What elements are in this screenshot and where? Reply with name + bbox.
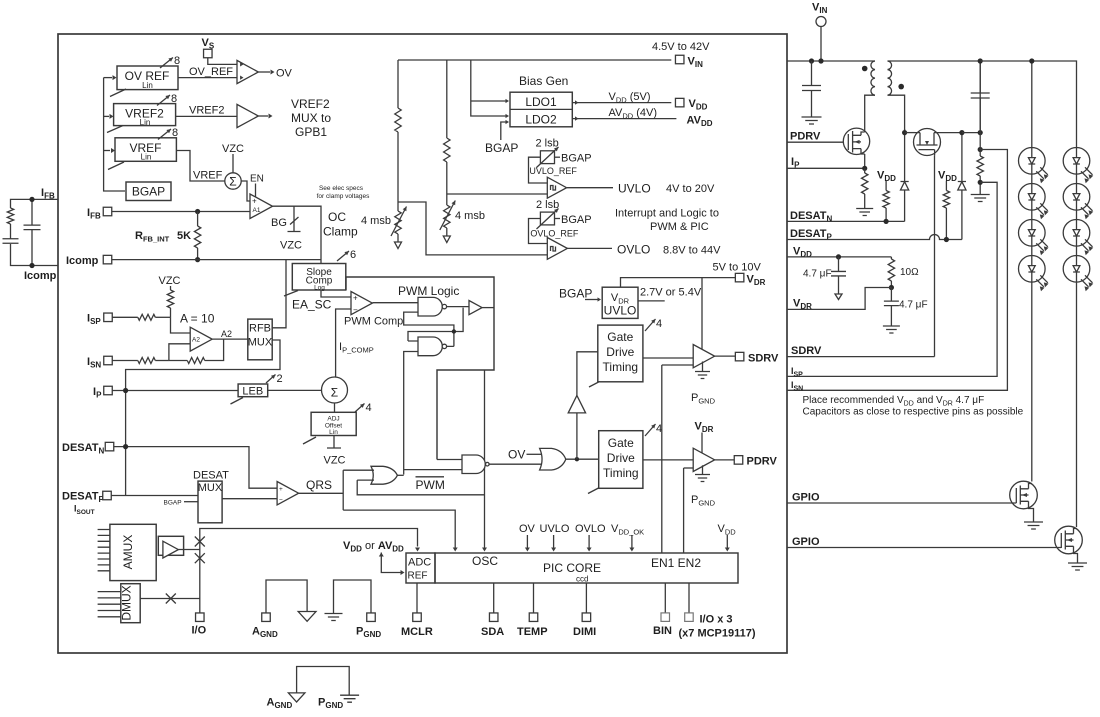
svg-text:8.8V to 44V: 8.8V to 44V xyxy=(663,245,721,257)
svg-text:LDO2: LDO2 xyxy=(525,113,557,127)
ground VDR cap earth xyxy=(883,326,900,333)
svg-text:4.7 μF: 4.7 μF xyxy=(899,300,928,311)
svg-text:for clamp voltages: for clamp voltages xyxy=(317,193,370,200)
svg-text:6: 6 xyxy=(350,249,356,261)
svg-text:AMUX: AMUX xyxy=(121,535,135,570)
wire driver2 ground xyxy=(702,465,704,474)
resistor RFB_INT 5K xyxy=(197,212,199,260)
svg-text:8: 8 xyxy=(174,55,180,67)
or gate OR1 xyxy=(371,466,397,484)
buffer up-triangle xyxy=(568,396,585,413)
driver PDRV xyxy=(693,448,714,471)
svg-text:OVLO: OVLO xyxy=(617,243,650,257)
adj arrow 2 on LEB xyxy=(266,375,276,384)
wire arrow into VREF2 xyxy=(104,115,109,117)
svg-text:2.7V or 5.4V: 2.7V or 5.4V xyxy=(640,287,702,299)
wire OVLO out xyxy=(567,247,612,249)
svg-text:PWM Comp: PWM Comp xyxy=(344,316,403,328)
transformer secondary leads xyxy=(888,61,981,133)
svg-text:(x7 MCP19117): (x7 MCP19117) xyxy=(679,628,756,640)
svg-text:4: 4 xyxy=(656,318,662,330)
transformer T1 primary xyxy=(871,61,875,95)
wire VDR to VDR-UVLO xyxy=(621,278,736,288)
wire TEMP stub xyxy=(533,583,535,613)
wire LEB to summer2 xyxy=(268,389,322,391)
svg-text:Lin: Lin xyxy=(142,81,153,90)
svg-text:UVLO: UVLO xyxy=(604,304,637,318)
svg-text:+: + xyxy=(279,486,283,493)
transformer primary bottom lead xyxy=(865,95,875,132)
svg-text:Icomp: Icomp xyxy=(66,255,99,267)
svg-text:4V to 20V: 4V to 20V xyxy=(666,183,715,195)
pin VDR square xyxy=(735,273,744,282)
wire EN1 stub into driver1 xyxy=(662,364,693,366)
diode D1 xyxy=(901,129,909,221)
wire MUX out to comparator minus xyxy=(222,498,277,500)
pin PGND xyxy=(367,613,376,622)
adj arrow 8 on VREF2 xyxy=(157,95,170,106)
varres divider2 4msb xyxy=(444,205,450,228)
svg-text:PWM Logic: PWM Logic xyxy=(398,284,459,298)
wire BGAP arrow into VDR UVLO xyxy=(585,299,598,301)
svg-text:VDR: VDR xyxy=(747,274,766,288)
wire output cap gap xyxy=(979,61,981,133)
svg-text:BGAP: BGAP xyxy=(164,500,182,507)
svg-text:BGAP: BGAP xyxy=(485,141,518,155)
LED D4 column1 xyxy=(1019,184,1049,220)
svg-text:VDD or AVDD: VDD or AVDD xyxy=(343,540,404,554)
block VDR UVLO xyxy=(602,287,638,318)
svg-text:+: + xyxy=(353,294,358,303)
wire buffer to IO bus xyxy=(178,549,199,551)
svg-text:VREF2: VREF2 xyxy=(291,97,330,111)
wire divider1 vertical xyxy=(397,60,399,108)
pin VDD square xyxy=(675,98,684,107)
wire IFB to A1 xyxy=(112,211,250,213)
wire BGAP reference bus xyxy=(104,78,125,191)
wire output rail to LEDs xyxy=(980,61,1076,148)
block DMUX xyxy=(120,584,141,623)
svg-text:VDD_OK: VDD_OK xyxy=(611,523,644,537)
svg-text:BIN: BIN xyxy=(653,625,672,637)
adj arrow 8 on OV REF xyxy=(160,58,173,69)
svg-text:EN1 EN2: EN1 EN2 xyxy=(651,556,701,570)
svg-text:QRS: QRS xyxy=(306,478,332,492)
svg-text:Icomp: Icomp xyxy=(24,270,57,282)
wire IOx3 stub xyxy=(688,583,690,613)
ground Q1 sense earth xyxy=(856,209,873,216)
wire LED col2 interconnect xyxy=(1076,174,1078,527)
adj arrow 6 on slope comp xyxy=(337,251,349,261)
svg-text:4: 4 xyxy=(656,423,662,435)
wire BIN stub xyxy=(664,583,666,613)
arrows into PIC top: OV UVLO OVLO VDDOK VDD xyxy=(526,535,528,549)
wire summer to A1 xyxy=(241,181,250,201)
svg-text:SDRV: SDRV xyxy=(791,345,822,357)
wire A2 output xyxy=(212,338,248,340)
svg-text:EN: EN xyxy=(250,174,264,185)
wire Q1 source down xyxy=(864,154,866,168)
pin IO xyxy=(196,613,205,622)
wire IP external xyxy=(787,167,865,169)
block AMUX xyxy=(110,524,156,580)
analog-ground triangle symbol xyxy=(288,693,305,702)
adj tick GDT2 xyxy=(588,488,599,494)
wire VREF2 buffer out arrow xyxy=(258,115,268,117)
wire divider2 middle xyxy=(446,162,448,205)
pin VIN external circle xyxy=(816,17,826,27)
ground input cap earth xyxy=(802,117,822,124)
LED D5 column1 xyxy=(1019,220,1049,256)
wire DESATP to DESAT MUX xyxy=(111,495,198,497)
wire secondary node to NMOS xyxy=(905,132,915,134)
svg-text:DMUX: DMUX xyxy=(120,585,134,620)
wire A1 output to slope comp xyxy=(273,206,322,263)
wire OV output arrow xyxy=(258,71,270,73)
svg-text:IP: IP xyxy=(93,386,102,400)
svg-text:IP: IP xyxy=(791,156,800,170)
block BGAP xyxy=(126,182,171,201)
wire NMOS gate down to SDRV xyxy=(934,155,936,356)
junction dot output top xyxy=(978,130,983,135)
wire DMUX out xyxy=(140,598,200,600)
svg-text:Lin: Lin xyxy=(140,118,151,127)
LED D10 column2 xyxy=(1063,255,1093,291)
svg-text:OSC: OSC xyxy=(472,554,498,568)
wire MCLR stub xyxy=(416,583,418,613)
svg-text:ISN: ISN xyxy=(87,356,101,370)
junction dot rail-cap xyxy=(809,58,814,63)
svg-text:DIMI: DIMI xyxy=(573,626,596,638)
summer sigma S1 xyxy=(225,173,241,189)
pin MCLR xyxy=(413,613,422,622)
wire inverter out to box edge xyxy=(482,307,494,309)
junction dot bus-IP xyxy=(123,388,128,393)
svg-text:Timing: Timing xyxy=(603,360,639,374)
wire UVLO out xyxy=(567,187,613,189)
wire PDRV external to PMOS gate xyxy=(787,141,847,143)
svg-text:A2: A2 xyxy=(192,337,200,344)
svg-text:RFB_INT: RFB_INT xyxy=(135,230,170,244)
X mark lower xyxy=(195,553,205,563)
comparator OVLO xyxy=(547,238,567,260)
adj tick LEB bottom-left xyxy=(231,398,244,405)
dac UVLO_REF box xyxy=(540,151,554,164)
ground driver2 earth xyxy=(695,475,710,482)
svg-text:Log: Log xyxy=(314,285,325,292)
wire OR2 out to GDT2 xyxy=(566,458,599,460)
wire DESATN to QRS comparator xyxy=(114,447,277,489)
svg-text:Σ: Σ xyxy=(229,175,236,189)
svg-text:IP_COMP: IP_COMP xyxy=(339,341,374,355)
junction dot latch xyxy=(452,329,456,333)
svg-text:See elec specs: See elec specs xyxy=(319,185,364,192)
ground GPIO1 earth xyxy=(1024,522,1043,529)
wire PWM comp out to NAND1 xyxy=(373,302,419,304)
svg-text:VDD: VDD xyxy=(689,98,708,112)
svg-text:ISP: ISP xyxy=(87,313,101,327)
wire NAND2 out cross-couple xyxy=(408,308,463,347)
svg-text:VREF: VREF xyxy=(193,170,223,182)
block Slope Comp xyxy=(292,264,346,292)
svg-text:DESAT: DESAT xyxy=(193,470,229,482)
svg-text:ISP: ISP xyxy=(791,366,803,379)
summer sigma S2 xyxy=(322,377,348,403)
svg-text:PGND: PGND xyxy=(691,494,716,508)
wire VDD-or-AVDD select to ADC REF xyxy=(379,553,384,557)
svg-text:VIN: VIN xyxy=(688,56,704,70)
op-amp PWM Comp xyxy=(351,292,372,315)
wire VREF2 signal xyxy=(176,115,237,117)
capacitor output C xyxy=(971,93,990,98)
svg-text:OV: OV xyxy=(519,523,536,535)
wire AGND to triangle xyxy=(266,580,307,613)
svg-text:VDR: VDR xyxy=(695,421,714,435)
wire UVLO dac to comparator xyxy=(529,157,548,183)
wire AND2 out to OR2 xyxy=(489,463,542,465)
wire LED col1 interconnect xyxy=(1031,174,1033,481)
wire ISN sense route xyxy=(787,150,1007,391)
svg-text:UVLO: UVLO xyxy=(618,182,651,196)
svg-text:ISOUT: ISOUT xyxy=(74,504,95,517)
svg-text:A1: A1 xyxy=(253,207,261,214)
pin TEMP xyxy=(529,613,538,622)
wire PDRV out xyxy=(715,459,735,461)
wire VDD 5V out xyxy=(572,102,671,104)
wire IP to LEB xyxy=(112,390,238,392)
analog ground triangle inside xyxy=(298,612,316,622)
diode D2 xyxy=(958,133,966,240)
wire QRS to OSC xyxy=(343,510,455,548)
nand gate U1B xyxy=(418,337,442,356)
wire RFB MUX lower out to IP bus xyxy=(126,340,280,496)
svg-text:VS: VS xyxy=(202,37,215,51)
svg-text:SDA: SDA xyxy=(481,626,504,638)
adj arrow 4 on ADJ offset xyxy=(355,404,365,413)
clamp BG symbol xyxy=(288,206,301,231)
wire UVLO tap xyxy=(447,193,548,195)
wire OV_REF xyxy=(178,77,237,79)
wire ISP sense route xyxy=(787,182,997,376)
wire PWMbar from box bottom to PIC xyxy=(484,370,486,549)
wire primary VIN rail xyxy=(787,60,875,62)
svg-text:4.7 μF: 4.7 μF xyxy=(803,269,832,280)
svg-text:Capacitors as close to respect: Capacitors as close to respective pins a… xyxy=(803,407,1024,418)
adj tick GDT1 xyxy=(589,382,600,388)
svg-text:Drive: Drive xyxy=(606,345,634,359)
wire VREF to summer xyxy=(176,151,225,182)
junction dot sense node lower xyxy=(978,180,983,185)
junction dot DESATP-pullup xyxy=(944,237,949,242)
wire RFB MUX upper out to Icomp xyxy=(272,260,286,328)
pin IO x3 xyxy=(685,613,694,622)
junction dot LED col1 xyxy=(1029,58,1034,63)
transistor Q2 sync FET xyxy=(914,129,962,156)
wire OR1 inputs xyxy=(343,470,374,480)
junction dot VDD cap xyxy=(836,254,841,259)
adj tick slope comp bottom-left xyxy=(284,291,298,297)
outer IC boundary box xyxy=(58,34,787,653)
block Gate Drive Timing 2 xyxy=(599,431,643,489)
junction dot OR2 out xyxy=(575,457,579,461)
wire DESATN external xyxy=(787,220,905,222)
pin BIN xyxy=(661,613,670,622)
wire OR1-net to AND2 low input xyxy=(404,469,462,471)
svg-text:VZC: VZC xyxy=(159,275,181,287)
svg-text:4 msb: 4 msb xyxy=(455,210,485,222)
wire PWMbar feedback xyxy=(357,480,484,495)
svg-text:BGAP: BGAP xyxy=(561,214,592,226)
and gate AND2 xyxy=(462,455,485,474)
wire ISP with resistor xyxy=(112,316,138,318)
phase dot secondary xyxy=(898,84,904,90)
svg-text:OV: OV xyxy=(508,448,525,462)
wire VDR UVLO out stub xyxy=(638,300,665,302)
svg-text:−: − xyxy=(279,497,283,504)
adj arrow 4 on GDT2 xyxy=(645,424,656,436)
wire VDR external xyxy=(787,288,891,310)
svg-text:MUX: MUX xyxy=(248,337,273,349)
wire earth to PGND pin xyxy=(334,580,372,614)
wire AVDD 4V out xyxy=(572,118,676,120)
svg-text:AGND: AGND xyxy=(267,697,293,711)
svg-text:VDD: VDD xyxy=(938,170,957,184)
wire NAND1 out to inverter xyxy=(447,306,469,308)
svg-text:VZC: VZC xyxy=(324,455,346,467)
wire EN2 vertical xyxy=(683,468,685,553)
wire divider2 vertical xyxy=(446,60,448,138)
wire NMOS source to output node xyxy=(962,132,980,134)
wire QRS out xyxy=(299,492,344,494)
or gate OR2 xyxy=(540,448,566,470)
svg-text:OV: OV xyxy=(276,68,293,80)
adj tick VREF2 bottom-left xyxy=(107,126,123,133)
LED D6 column1 xyxy=(1019,255,1049,291)
wire GDT1 out to SDRV driver xyxy=(643,357,693,359)
svg-text:ADC: ADC xyxy=(408,557,431,569)
svg-text:TEMP: TEMP xyxy=(517,626,548,638)
junction dot RFB top xyxy=(195,209,200,214)
junction dot bus-DESATN xyxy=(123,444,128,449)
block VREF xyxy=(115,138,176,162)
svg-text:PWM: PWM xyxy=(416,478,445,492)
wire VDR down to SDRV driver xyxy=(701,278,703,349)
svg-text:OV_REF: OV_REF xyxy=(189,66,233,78)
wire IP_COMP xyxy=(336,309,351,378)
svg-text:LDO1: LDO1 xyxy=(525,95,557,109)
LED D8 column2 xyxy=(1063,184,1093,220)
block RFB MUX xyxy=(248,319,273,360)
svg-text:A = 10: A = 10 xyxy=(180,312,215,326)
inverter buffer xyxy=(469,301,482,315)
svg-text:PDRV: PDRV xyxy=(747,456,778,468)
LED D9 column2 xyxy=(1063,220,1093,256)
svg-text:PIC CORE: PIC CORE xyxy=(543,561,601,575)
svg-text:OVLO_REF: OVLO_REF xyxy=(530,229,579,239)
ground earth inside xyxy=(325,614,343,621)
svg-text:UVLO_REF: UVLO_REF xyxy=(529,166,577,176)
svg-text:8: 8 xyxy=(172,127,178,139)
svg-text:2: 2 xyxy=(277,373,283,385)
svg-text:RFB: RFB xyxy=(249,323,271,335)
wire VDD external xyxy=(787,256,891,258)
svg-text:OVLO: OVLO xyxy=(575,523,606,535)
wire OR1 output to latch xyxy=(397,474,403,476)
svg-text:OC: OC xyxy=(328,210,346,224)
svg-text:REF: REF xyxy=(408,571,428,582)
wire OVLO dac to comparator xyxy=(529,219,548,244)
svg-text:5V to 10V: 5V to 10V xyxy=(713,262,762,274)
resistor 10ohm xyxy=(890,257,892,259)
wire ISP node down to A2 plus xyxy=(171,317,191,333)
wire BGAP stub xyxy=(184,501,198,503)
block PIC CORE xyxy=(435,553,738,584)
wire sense node upper xyxy=(978,147,983,152)
svg-text:BGAP: BGAP xyxy=(559,287,592,301)
svg-text:5K: 5K xyxy=(177,230,191,242)
wire VIN internal rail xyxy=(398,59,671,61)
junction dot RFB bottom xyxy=(195,257,200,262)
svg-text:LEB: LEB xyxy=(242,386,263,398)
svg-text:4: 4 xyxy=(366,402,372,414)
wire SDRV external xyxy=(787,356,935,358)
svg-text:UVLO: UVLO xyxy=(540,523,570,535)
svg-text:MUX to: MUX to xyxy=(291,111,331,125)
wire SDRV out xyxy=(715,355,736,357)
wire EN into A1 xyxy=(255,184,257,199)
pin PDRV square xyxy=(734,456,743,465)
wire OVLO tap xyxy=(398,202,547,255)
svg-text:I/O x 3: I/O x 3 xyxy=(700,614,733,626)
block Gate Drive Timing 1 xyxy=(598,325,643,382)
resistor Q1 source sense xyxy=(864,168,866,173)
svg-text:VDD (5V): VDD (5V) xyxy=(609,91,651,105)
svg-text:GPB1: GPB1 xyxy=(295,125,327,139)
arrow down divider1 xyxy=(397,234,399,242)
svg-text:Timing: Timing xyxy=(603,466,639,480)
wire output rail vertical xyxy=(979,61,981,133)
X mark upper xyxy=(195,537,205,547)
svg-text:VDD: VDD xyxy=(718,523,737,537)
wire summer2 to ADJ offset xyxy=(334,403,336,412)
svg-text:GPIO: GPIO xyxy=(792,536,820,548)
svg-text:ISN: ISN xyxy=(791,380,803,393)
wire VZC to summer xyxy=(232,154,234,173)
svg-text:MCLR: MCLR xyxy=(401,626,433,638)
svg-text:IFB: IFB xyxy=(87,207,101,221)
svg-text:ccd: ccd xyxy=(576,575,588,584)
comparator UVLO xyxy=(547,177,566,198)
LED D7 column2 xyxy=(1063,148,1093,184)
capacitor external C2 middle branch xyxy=(31,199,33,265)
wire up-buffer to GDT1 xyxy=(577,352,598,396)
svg-text:Clamp: Clamp xyxy=(323,225,358,239)
varres divider1 4msb xyxy=(395,211,401,234)
op-amp A2 xyxy=(190,327,212,351)
svg-text:PWM & PIC: PWM & PIC xyxy=(650,221,709,233)
resistor divider2 upper xyxy=(444,138,450,162)
junction dot rail-vin xyxy=(818,58,823,63)
buffer box AMUX output xyxy=(158,536,183,555)
pin SDRV square xyxy=(735,352,744,361)
svg-text:AGND: AGND xyxy=(252,626,278,640)
svg-text:DESATN: DESATN xyxy=(62,442,104,456)
wire OR2 node up to up-buffer xyxy=(576,413,578,459)
svg-text:MUX: MUX xyxy=(198,482,223,494)
driver SDRV xyxy=(693,345,714,368)
block LEB xyxy=(238,384,268,398)
wire divider1 middle xyxy=(397,132,399,211)
